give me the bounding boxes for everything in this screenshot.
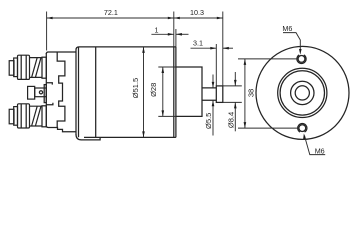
38 extension line top <box>238 58 298 60</box>
dim 3.1 leader right <box>223 47 233 49</box>
svg-text:72.1: 72.1 <box>104 8 118 17</box>
M6 hole top <box>298 56 305 63</box>
terminal stud end (top bolt) <box>9 61 14 75</box>
nut facet line 2 (bottom) <box>25 104 27 128</box>
extension line at cylinder right face <box>173 12 175 47</box>
flange outer circle <box>256 46 349 139</box>
extension line at end plate <box>175 29 177 67</box>
extension line at collar right <box>222 12 224 86</box>
hex nut (bottom bolt) <box>18 104 30 128</box>
cylinder right face <box>173 47 175 137</box>
body top edge <box>79 46 176 48</box>
housing band seam <box>78 47 80 137</box>
cap bottom edge with step <box>46 126 76 132</box>
svg-text:10.3: 10.3 <box>190 8 204 17</box>
M6 hole bottom <box>299 125 306 132</box>
M6 thread arc bottom <box>298 124 307 133</box>
dim line 72.1 <box>47 17 174 19</box>
Ø8.4 dim line upper <box>234 72 236 86</box>
svg-text:Ø51.5: Ø51.5 <box>131 78 140 98</box>
nut facet line 2 (top) <box>25 56 27 80</box>
cap left face <box>45 53 47 127</box>
body bottom edge <box>84 136 176 138</box>
housing band left edge <box>76 47 79 135</box>
svg-text:Ø28: Ø28 <box>149 83 158 97</box>
arrow 38 top <box>244 59 247 65</box>
arrow 72.1 left <box>47 17 53 20</box>
Ø28 extension whisker bottom <box>158 115 176 117</box>
arrow dim1 left <box>168 33 174 36</box>
svg-text:M6: M6 <box>315 146 325 155</box>
svg-text:Ø8.4: Ø8.4 <box>226 112 235 128</box>
spade terminal tab <box>28 86 35 99</box>
M6 top leader <box>283 33 300 52</box>
nut facet line 1 (top) <box>20 56 22 80</box>
arrow M6 bottom leader <box>303 133 306 139</box>
arrow 10.3 left <box>174 17 180 20</box>
arrow Ø51.5 top <box>142 47 145 53</box>
terminal stud end (bottom bolt) <box>9 109 14 124</box>
threaded shank with break symbol (bottom bolt) <box>30 106 43 126</box>
dim 1 leader right <box>176 33 189 35</box>
arrow 38 bottom <box>244 122 247 128</box>
plunger shaft (Ø5.5) <box>202 88 216 100</box>
extension line at collar left <box>215 44 217 86</box>
body ring outer circle <box>278 68 327 117</box>
arrow Ø28 top <box>162 67 165 73</box>
dim line 38 <box>244 59 246 128</box>
M6 thread arc top <box>297 55 306 64</box>
cap notch upper <box>46 83 52 85</box>
38 extension line bottom <box>238 127 299 129</box>
cap inner staircase <box>57 52 65 127</box>
arrow Ø51.5 bottom <box>142 131 145 137</box>
end plate line <box>175 47 177 137</box>
arrow dim1 right <box>176 33 182 36</box>
shaft collar washer <box>216 86 223 103</box>
arrow Ø5.5 top <box>212 82 215 88</box>
Ø8.4 extension line top <box>223 85 242 87</box>
body ring inner circle <box>280 71 324 115</box>
Ø8.4 extension line bottom <box>223 101 242 103</box>
svg-text:Ø5.5: Ø5.5 <box>204 113 213 129</box>
cap middle boss <box>44 85 46 103</box>
arrow 3.1 right <box>223 47 229 50</box>
cylinder seam <box>95 47 97 137</box>
arrow Ø28 bottom <box>162 110 165 116</box>
center boss outer circle <box>291 81 314 104</box>
spade terminal blade <box>35 88 47 97</box>
cap notch lower <box>46 103 53 105</box>
arrow Ø5.5 bottom <box>212 100 215 106</box>
svg-text:1: 1 <box>155 26 159 35</box>
center boss inner circle <box>295 86 309 100</box>
threaded shank with break symbol (top bolt) <box>30 58 43 78</box>
M6 bottom leader <box>305 136 326 155</box>
terminal washer (bottom bolt) <box>14 107 18 126</box>
arrow 72.1 right <box>168 17 174 20</box>
arrow M6 top leader <box>299 49 302 55</box>
dim line 10.3 <box>174 17 223 19</box>
arrow Ø8.4 bottom <box>234 102 237 108</box>
Ø28 extension whisker top <box>158 66 176 68</box>
housing band foot <box>76 134 100 140</box>
terminal boss (top) <box>42 57 46 78</box>
arrow 10.3 right <box>217 17 223 20</box>
arrow 3.1 left <box>210 47 216 50</box>
nut facet line 1 (bottom) <box>20 104 22 128</box>
hex nut (top bolt) <box>18 55 30 79</box>
front section (Ø28) <box>176 67 202 116</box>
Ø5.5 dim line lower <box>212 100 214 135</box>
terminal washer (top bolt) <box>14 58 18 77</box>
svg-text:M6: M6 <box>282 24 292 33</box>
terminal boss (bottom) <box>42 106 46 127</box>
dim 1 leader left <box>151 33 173 35</box>
cap top edge <box>46 52 76 54</box>
Ø8.4 dim line lower <box>234 102 236 131</box>
arrow Ø8.4 top <box>234 80 237 86</box>
extension line at left face <box>46 12 48 51</box>
Ø5.5 dim line upper <box>212 75 214 88</box>
dim line Ø28 <box>162 67 164 116</box>
svg-text:38: 38 <box>246 89 255 97</box>
dim line Ø51.5 <box>143 47 145 137</box>
svg-text:3.1: 3.1 <box>193 38 203 47</box>
dim 3.1 leader left <box>191 47 217 49</box>
spade terminal hole <box>39 91 42 94</box>
